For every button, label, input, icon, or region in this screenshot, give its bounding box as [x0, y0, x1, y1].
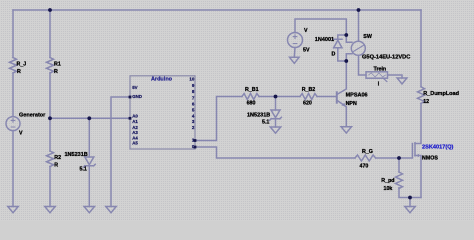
- svg-text:MPSA06: MPSA06: [346, 92, 368, 98]
- wire Generator to ground: [12, 131, 14, 207]
- ground under V2: [290, 57, 300, 63]
- Arduino box U1: [130, 76, 195, 149]
- svg-text:620: 620: [303, 100, 312, 106]
- resistor R1: [47, 58, 54, 74]
- pin dot 1: [194, 139, 197, 142]
- transistor Q1 emitter: [337, 100, 346, 126]
- junction top relay: [357, 8, 361, 12]
- svg-text:1N4001: 1N4001: [315, 37, 334, 43]
- transistor Q1 collector: [337, 61, 346, 94]
- wire R_DumpLoad column: [420, 10, 422, 87]
- svg-text:V: V: [304, 28, 308, 34]
- wire R_B1 to junction: [259, 96, 300, 98]
- mosfet M1 channel bar: [414, 143, 416, 156]
- svg-text:5V: 5V: [303, 48, 310, 54]
- pin dot A0: [129, 117, 132, 120]
- junction node A0 zener: [87, 116, 91, 120]
- ground under Q1 emitter: [341, 127, 351, 133]
- svg-text:Generator: Generator: [19, 113, 46, 119]
- svg-text:GND: GND: [132, 94, 142, 99]
- svg-text:R: R: [17, 69, 21, 75]
- wire node A0 row: [50, 117, 130, 119]
- wire Arduino GND pin: [111, 97, 130, 207]
- svg-text:R1: R1: [54, 61, 61, 67]
- svg-text:Arduino: Arduino: [151, 77, 173, 83]
- wire Arduino pin1 to base row: [195, 97, 242, 141]
- relay SW coil circle: [351, 41, 365, 55]
- svg-text:R_DumpLoad: R_DumpLoad: [423, 91, 459, 97]
- ground under zener D1: [84, 207, 94, 213]
- wire zener D2 to ground: [275, 119, 277, 127]
- junction gate row: [397, 156, 401, 160]
- voltage source Generator: [6, 117, 20, 131]
- svg-text:5.1: 5.1: [80, 167, 87, 173]
- ground under Arduino GND: [106, 207, 116, 213]
- svg-text:R: R: [54, 69, 58, 75]
- svg-text:470: 470: [360, 164, 369, 170]
- junction top R1: [48, 8, 52, 12]
- wire R_pd bottom to source: [399, 188, 421, 198]
- junction coil bottom: [344, 59, 348, 63]
- wire coil stub bottom: [346, 54, 352, 61]
- junction base row zener: [274, 95, 278, 99]
- svg-text:R_B1: R_B1: [245, 87, 259, 93]
- svg-text:R_J: R_J: [17, 61, 27, 67]
- wire V2 top to relay coil: [295, 19, 346, 35]
- wire R2 to ground: [49, 167, 51, 207]
- wire top rail: [13, 9, 421, 11]
- ground under R2: [45, 207, 55, 213]
- junction coil top: [344, 33, 348, 37]
- wire left column top: [12, 10, 14, 58]
- resistor R_B1: [242, 94, 259, 100]
- wire R_J to Generator: [12, 73, 14, 117]
- svg-text:10: 10: [189, 77, 194, 82]
- svg-text:SW: SW: [363, 34, 372, 40]
- wire pin0 to gate row: [195, 147, 355, 158]
- resistor R2: [47, 151, 54, 167]
- ground under R_pd node: [405, 207, 415, 213]
- svg-text:10k: 10k: [384, 186, 393, 192]
- wire R1 column top: [49, 10, 51, 58]
- pin dot GND: [129, 96, 132, 99]
- resistor R_pd: [396, 172, 403, 189]
- svg-text:A0: A0: [132, 113, 138, 118]
- mosfet M1 gate bar: [411, 144, 413, 158]
- svg-text:5.1: 5.1: [262, 119, 269, 125]
- ground under zener D2: [270, 127, 280, 133]
- pin dot 0: [194, 146, 197, 149]
- ground under Generator: [8, 207, 18, 213]
- junction node A0 left: [48, 116, 52, 120]
- relay SW lever: [354, 45, 364, 51]
- wire coil top to diode D3: [338, 35, 347, 39]
- svg-text:1N5231B: 1N5231B: [247, 112, 270, 118]
- svg-text:NPN: NPN: [346, 101, 357, 107]
- wire junction to zener D2: [275, 97, 277, 111]
- wire relay top: [358, 10, 360, 41]
- svg-text:A1: A1: [132, 119, 138, 124]
- svg-text:1N5231B: 1N5231B: [65, 152, 88, 158]
- wire ground stem bottom right: [409, 198, 411, 207]
- load Trein arrow tick: [384, 79, 387, 82]
- resistor R_G: [355, 155, 376, 161]
- svg-text:R_B2: R_B2: [302, 87, 316, 93]
- transistor Q1 MPSA06 base bar: [336, 92, 338, 102]
- svg-text:R_pd: R_pd: [381, 178, 394, 184]
- svg-text:G5Q-14EU-12VDC: G5Q-14EU-12VDC: [362, 55, 410, 61]
- voltage source V2 5V: [288, 33, 303, 48]
- zener diode D2 1N5231B: [271, 110, 280, 118]
- wire R_B2 to base: [317, 96, 336, 98]
- svg-text:Trein: Trein: [374, 66, 387, 72]
- svg-text:5V: 5V: [132, 85, 137, 90]
- wire R_G to gate: [376, 157, 413, 159]
- resistor R_DumpLoad: [418, 87, 425, 104]
- mosfet M1 source arrow: [416, 154, 419, 157]
- wire gate node to R_pd: [398, 158, 400, 172]
- resistor R_B2: [300, 94, 317, 100]
- wire coil stub top: [346, 35, 352, 42]
- svg-text:V: V: [19, 131, 23, 137]
- junction source ground: [408, 196, 412, 200]
- svg-text:R: R: [54, 162, 58, 168]
- mosfet M1 source lead: [415, 156, 421, 198]
- svg-text:A4: A4: [132, 135, 138, 140]
- wire Trein to ground: [388, 75, 403, 78]
- transistor Q1 emitter arrow: [342, 103, 346, 107]
- wire R_DumpLoad to M1 drain: [415, 103, 421, 143]
- svg-text:A5: A5: [132, 141, 138, 146]
- svg-text:2SK4017(Q): 2SK4017(Q): [422, 145, 454, 151]
- wire node to R2: [49, 118, 51, 151]
- zener diode D1 1N5231B: [85, 157, 94, 165]
- svg-text:12: 12: [423, 99, 429, 105]
- wire node to zener D1: [88, 118, 90, 157]
- svg-text:D: D: [332, 51, 336, 57]
- wire zener D1 to ground: [88, 166, 90, 207]
- svg-text:R2: R2: [54, 155, 61, 161]
- svg-text:NMOS: NMOS: [422, 156, 438, 162]
- wire relay bottom to Trein: [359, 55, 367, 75]
- wire R1 to node A0: [49, 73, 51, 118]
- wire V2 to ground: [293, 48, 296, 58]
- svg-text:R_G: R_G: [362, 149, 373, 155]
- load Trein box: [366, 72, 388, 78]
- diode D3 1N4001: [334, 39, 342, 48]
- resistor R_J: [10, 58, 17, 74]
- ground after Trein: [397, 78, 407, 84]
- svg-text:680: 680: [247, 100, 256, 106]
- wire diode D3 to coil bottom: [338, 48, 347, 61]
